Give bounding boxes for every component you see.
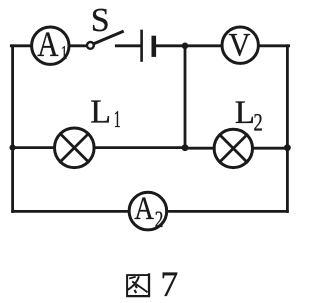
svg-text:2: 2 [253, 109, 262, 136]
caption character 图 (drawn) [126, 273, 150, 297]
lamp L1 cross [60, 134, 88, 162]
wire node to voltmeter [185, 44, 222, 47]
node junction top (battery/voltmeter branch) [182, 43, 189, 50]
switch S hinge [87, 42, 94, 49]
wire L1 to middle node [94, 146, 185, 149]
svg-text:7: 7 [160, 264, 178, 303]
svg-text:2: 2 [155, 207, 164, 232]
battery short plate [152, 38, 157, 55]
svg-text:A: A [134, 191, 154, 227]
lamp L2 cross [220, 135, 247, 162]
svg-text:1: 1 [114, 107, 121, 133]
voltmeter V circle [222, 27, 258, 63]
ammeter A2 circle [129, 192, 167, 230]
wire right vertical lower [286, 148, 289, 212]
wire L2 to right node [252, 147, 287, 150]
svg-text:S: S [91, 2, 110, 39]
wire battery to node [156, 44, 185, 47]
wire switch contact to battery [116, 44, 140, 47]
wire A1 to switch [69, 44, 86, 47]
switch S blade [94, 32, 122, 44]
svg-text:A: A [37, 24, 59, 64]
svg-text:V: V [229, 28, 251, 64]
svg-text:1: 1 [61, 42, 68, 64]
svg-text:L: L [235, 95, 255, 131]
wire A2 to bottom right [167, 210, 288, 213]
wire right vertical upper [286, 46, 289, 148]
wire left vertical upper [11, 46, 14, 148]
wire bottom left to A2 [13, 210, 129, 213]
lamp L2 circle [214, 129, 252, 167]
lamp L1 circle [55, 128, 95, 168]
node junction left middle [10, 145, 16, 151]
ammeter A1 circle [32, 27, 69, 64]
wire middle vertical branch [184, 46, 187, 148]
wire top-left horizontal [11, 44, 30, 47]
battery long plate [140, 31, 143, 61]
wire left vertical lower [11, 148, 14, 212]
wire middle node to L2 [185, 147, 214, 150]
node junction right middle [284, 144, 291, 151]
node junction center middle [182, 144, 189, 151]
wire voltmeter to right corner [259, 44, 289, 47]
wire middle row left to L1 [13, 146, 55, 149]
svg-text:L: L [90, 94, 111, 131]
